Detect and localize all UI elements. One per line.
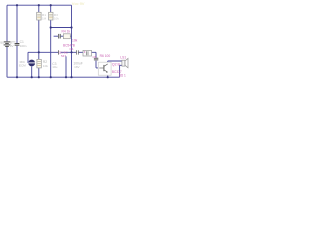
capacitor C4 row plates [59,34,61,39]
wire mic feed [27,52,29,63]
wire feedback horizontal y27 [51,27,72,29]
wire signal bus y52 [28,52,99,68]
junction dots y27 [50,26,52,28]
svg-text:ECM: ECM [19,64,26,68]
wire Q1 emitter drop [65,56,67,77]
svg-text:R6 100: R6 100 [100,54,111,58]
wire Q2 emitter drop [107,72,109,77]
wire C1 branch vertical [16,5,18,77]
svg-text:Vcc 9V: Vcc 9V [72,1,85,6]
svg-text:R4 1k: R4 1k [62,30,71,34]
svg-text:10k: 10k [54,16,59,20]
svg-text:10k: 10k [72,39,78,43]
wire Q2 collector to speaker [108,61,122,64]
capacitor plates mid x77 [77,50,79,54]
junction dots top rail [16,4,109,78]
wire left vertical battery branch [6,5,8,77]
svg-text:1M: 1M [42,16,47,20]
junction dots bottom rail [16,76,18,78]
resistor R4 row box [63,34,70,39]
svg-text:100n: 100n [20,44,27,48]
transistor Q2 symbol [99,64,107,72]
transistor Q2 box [98,62,111,75]
resistor R3 [49,12,53,20]
wire middle row y36 [54,35,72,37]
junction dots y52 [38,51,40,53]
node GND bottom rail [7,76,120,78]
node VCC top rail [7,4,72,6]
resistor R2 [37,59,41,68]
capacitor C2 plates on signal bus [58,50,60,54]
svg-text:16V: 16V [74,65,80,69]
wire mic to ground [31,67,33,78]
wire R3 branch vertical [50,5,52,77]
svg-text:8Ω 1: 8Ω 1 [119,73,126,77]
capacitor C1 [15,44,20,46]
wire right vertical x71.5 [71,5,73,77]
svg-text:Q2 B: Q2 B [112,62,121,66]
microphone MK1 [28,60,35,67]
speaker LS1 [122,58,128,67]
battery BT1 [4,42,11,47]
svg-text:Q1: Q1 [70,47,74,51]
wire R1 branch vertical [38,5,40,77]
svg-text:C5: C5 [93,55,97,59]
capacitor C5 box [83,50,92,56]
capacitor C6 plates before Q2 base [94,58,98,60]
resistor R1 [37,12,41,20]
svg-text:547: 547 [61,54,66,58]
svg-text:10k: 10k [43,64,48,68]
svg-text:LS1: LS1 [120,56,126,60]
svg-text:10u: 10u [52,65,57,69]
wire speaker ground riser [120,65,122,77]
